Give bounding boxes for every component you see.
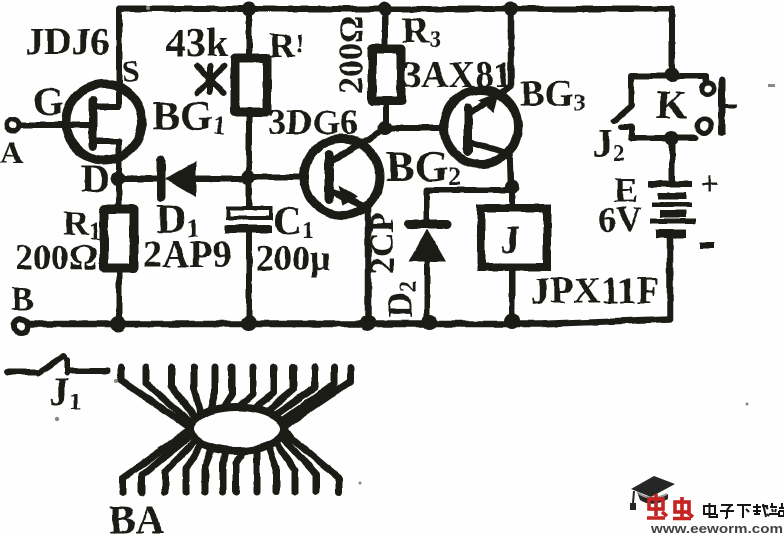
svg-text:200Ω: 200Ω (333, 16, 370, 94)
svg-text:J1: J1 (49, 369, 81, 415)
svg-text:JDJ6: JDJ6 (25, 21, 109, 63)
svg-text:R!: R! (269, 25, 304, 65)
svg-text:43k: 43k (166, 20, 229, 65)
svg-text:JPX11F: JPX11F (531, 270, 660, 312)
svg-text:D2: D2 (380, 280, 422, 318)
svg-text:D: D (81, 156, 110, 201)
svg-text:2CP: 2CP (364, 212, 401, 274)
svg-text:+: + (700, 166, 719, 203)
svg-text:BG1: BG1 (152, 94, 226, 140)
svg-text:K: K (656, 82, 687, 127)
svg-text:3DG6: 3DG6 (268, 102, 358, 142)
svg-text:S: S (122, 53, 140, 89)
svg-text:200μ: 200μ (256, 238, 330, 278)
svg-text:J: J (500, 217, 520, 262)
svg-text:A: A (0, 134, 23, 170)
svg-text:200Ω: 200Ω (15, 237, 98, 277)
svg-text:BA: BA (109, 497, 165, 534)
svg-text:3AX81: 3AX81 (403, 55, 512, 96)
svg-text:2AP9: 2AP9 (143, 234, 232, 276)
svg-text:6V: 6V (598, 199, 642, 239)
svg-text:www.eeworm.com: www.eeworm.com (650, 521, 783, 534)
svg-text:R3: R3 (402, 10, 441, 53)
svg-text:B: B (11, 281, 34, 318)
svg-text:BG3: BG3 (520, 74, 585, 115)
svg-text:G: G (33, 79, 64, 124)
